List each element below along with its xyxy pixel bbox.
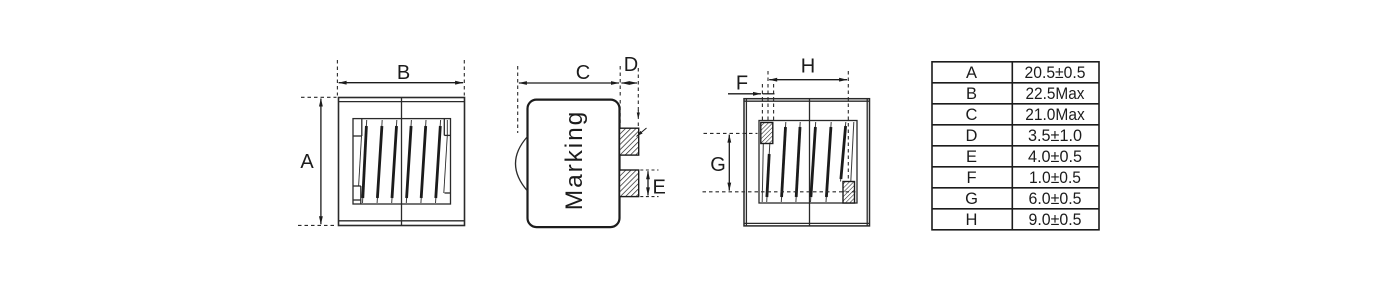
table outer border bbox=[932, 62, 1099, 230]
dimension D arrow line bbox=[621, 82, 637, 84]
inner offset lines bbox=[745, 99, 747, 226]
pad bottom-right bbox=[843, 182, 855, 204]
upper terminal pad bbox=[620, 128, 639, 155]
dimension B arrow line bbox=[339, 82, 464, 84]
dimension C extension line left bbox=[517, 66, 519, 133]
svg-text:G: G bbox=[965, 190, 978, 208]
dimension E extension line bottom bbox=[640, 196, 658, 198]
dimension F tail line bbox=[763, 93, 775, 95]
dimension H extension line right bbox=[847, 71, 849, 181]
dimension F extension line left bbox=[761, 84, 763, 121]
center parting line bbox=[809, 99, 811, 226]
svg-text:Marking: Marking bbox=[561, 110, 588, 210]
dimension G extension line bottom bbox=[703, 191, 858, 193]
svg-text:6.0±0.5: 6.0±0.5 bbox=[1029, 190, 1082, 208]
dimension B extension line left bbox=[336, 60, 338, 96]
core body outline bbox=[339, 98, 465, 226]
pad top-left bbox=[761, 123, 773, 144]
svg-text:F: F bbox=[966, 169, 976, 187]
winding turns (thick middles) bbox=[767, 126, 846, 197]
svg-text:H: H bbox=[966, 211, 978, 229]
table row dividers bbox=[932, 82, 1099, 84]
svg-text:D: D bbox=[624, 54, 638, 76]
svg-text:C: C bbox=[966, 106, 978, 124]
svg-text:22.5Max: 22.5Max bbox=[1026, 85, 1086, 103]
dimension A extension line bottom bbox=[298, 224, 337, 226]
lower terminal pad bbox=[620, 170, 639, 197]
svg-text:G: G bbox=[710, 154, 726, 176]
dimension C arrow line bbox=[519, 82, 619, 84]
svg-text:1.0±0.5: 1.0±0.5 bbox=[1029, 169, 1081, 187]
svg-text:A: A bbox=[966, 64, 977, 82]
dimension G arrow line bbox=[728, 135, 730, 191]
dimension E arrow line bbox=[647, 171, 649, 195]
svg-text:20.5±0.5: 20.5±0.5 bbox=[1025, 64, 1086, 82]
dimension A arrow line bbox=[320, 99, 322, 225]
winding turns (thick middles) bbox=[363, 126, 441, 198]
right bobbin flange lines bbox=[443, 119, 445, 136]
dimension D extension line left bbox=[619, 100, 621, 126]
svg-text:F: F bbox=[736, 73, 748, 95]
body bbox=[528, 100, 620, 228]
left bobbin flange lines bbox=[361, 119, 363, 136]
svg-text:E: E bbox=[653, 176, 666, 198]
inner bottom line bbox=[339, 220, 465, 222]
winding turns (thin full) bbox=[762, 122, 854, 202]
svg-text:C: C bbox=[576, 62, 590, 84]
side bulge arc bbox=[516, 137, 528, 192]
pad leader arrow bbox=[637, 128, 647, 137]
svg-text:E: E bbox=[966, 148, 977, 166]
winding turns (thin full) bbox=[363, 120, 441, 203]
dimension D extension down arrow bbox=[637, 110, 639, 119]
svg-text:21.0Max: 21.0Max bbox=[1025, 106, 1085, 124]
svg-text:A: A bbox=[300, 151, 314, 173]
svg-text:B: B bbox=[397, 62, 410, 84]
dimension D extension line right bbox=[637, 68, 639, 112]
svg-text:3.5±1.0: 3.5±1.0 bbox=[1028, 127, 1082, 145]
coil window bbox=[353, 119, 451, 204]
dimension H extension line left bbox=[767, 71, 769, 121]
dimension F extension line right bbox=[773, 84, 775, 121]
body outline bbox=[744, 99, 870, 226]
svg-text:D: D bbox=[966, 127, 978, 145]
svg-text:H: H bbox=[801, 56, 815, 78]
dimension C extension line right bbox=[619, 66, 621, 96]
inner top line bbox=[339, 101, 465, 103]
dimension F arrow line bbox=[728, 93, 761, 95]
coil window bbox=[759, 121, 857, 204]
dimension A extension line top bbox=[301, 96, 337, 98]
dimension H arrow line bbox=[769, 79, 847, 81]
dimension B extension line right bbox=[463, 60, 465, 96]
dimension E extension line top bbox=[640, 169, 658, 171]
center parting line bbox=[401, 98, 403, 226]
svg-text:B: B bbox=[966, 85, 977, 103]
svg-text:9.0±0.5: 9.0±0.5 bbox=[1029, 211, 1082, 229]
svg-text:4.0±0.5: 4.0±0.5 bbox=[1028, 148, 1082, 166]
dimension G extension line top bbox=[704, 132, 758, 134]
table column divider bbox=[1011, 62, 1013, 230]
